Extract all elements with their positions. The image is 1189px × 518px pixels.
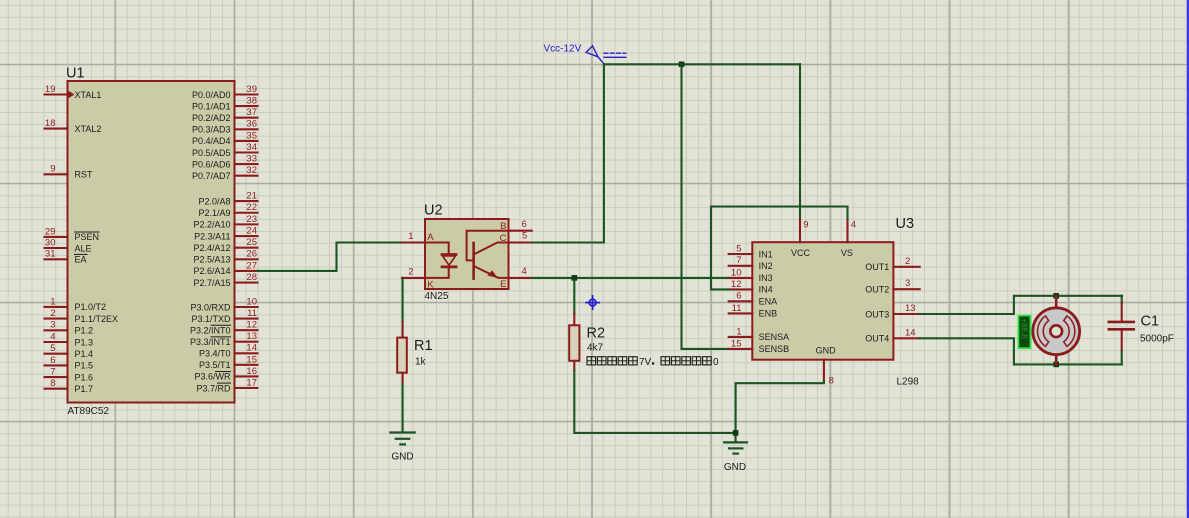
svg-text:13: 13 xyxy=(905,303,916,314)
svg-text:1k: 1k xyxy=(415,356,427,367)
wire U2 pin E to U3 IN3 xyxy=(532,277,729,279)
U2 pin 6 (B) xyxy=(500,219,532,232)
U1 pin 24 (P2.3/A11) xyxy=(194,225,257,241)
svg-text:14: 14 xyxy=(905,327,916,338)
svg-text:U3: U3 xyxy=(896,216,915,232)
svg-text:P2.1/A9: P2.1/A9 xyxy=(198,208,230,218)
U2 pin 1 (A) xyxy=(402,231,434,243)
U1 pin 8 (P1.7) xyxy=(45,378,94,394)
svg-text:P1.6: P1.6 xyxy=(75,372,94,382)
svg-text:23: 23 xyxy=(246,214,257,225)
U1 value AT89C52 xyxy=(68,406,110,417)
U1 pin 15 (P3.5/T1) xyxy=(199,354,258,370)
wire U1 P2.6 (pin 27) to U2 pin A xyxy=(258,243,403,271)
U2 internal LED xyxy=(425,243,456,278)
svg-text:P0.5/AD5: P0.5/AD5 xyxy=(192,148,231,158)
svg-text:AT89C52: AT89C52 xyxy=(68,406,110,417)
svg-text:6: 6 xyxy=(736,291,741,302)
U1 pin 12 (P3.2/INT0) xyxy=(190,320,258,336)
U1 pin 30 (ALE) xyxy=(45,237,92,253)
U2 pin 4 (E) xyxy=(500,266,532,290)
U1 pin 9 (RST) xyxy=(45,164,94,180)
junction motor bottom xyxy=(1053,362,1059,368)
svg-text:17: 17 xyxy=(246,377,257,388)
svg-text:6: 6 xyxy=(522,219,527,230)
svg-text:ENA: ENA xyxy=(759,297,778,307)
svg-text:OUT1: OUT1 xyxy=(865,262,889,272)
svg-text:P0.6/AD6: P0.6/AD6 xyxy=(192,159,231,169)
U1 pin 25 (P2.4/A12) xyxy=(193,237,257,253)
svg-text:10: 10 xyxy=(731,267,742,278)
svg-text:3: 3 xyxy=(50,320,55,331)
svg-text:5: 5 xyxy=(736,243,741,254)
U1 pin 17 (P3.7/RD) xyxy=(196,377,257,393)
svg-text:XTAL1: XTAL1 xyxy=(75,90,102,100)
svg-text:P1.5: P1.5 xyxy=(75,361,94,371)
svg-text:27: 27 xyxy=(246,260,257,271)
svg-text:8: 8 xyxy=(50,378,55,389)
svg-text:2: 2 xyxy=(408,267,413,278)
svg-text:18: 18 xyxy=(45,118,56,129)
U3 value L298 xyxy=(897,376,920,387)
U1 pin 5 (P1.4) xyxy=(45,343,94,359)
svg-text:P3.7/RD: P3.7/RD xyxy=(196,383,231,393)
svg-text:IN4: IN4 xyxy=(759,285,773,295)
junction at R2 top xyxy=(572,275,578,281)
U3 pin 2 (OUT1) xyxy=(865,256,919,272)
svg-text:15: 15 xyxy=(246,354,257,365)
microcontroller U1 AT89C52 xyxy=(68,81,235,403)
U1 pin 35 (P0.4/AD4) xyxy=(192,130,258,146)
U1 pin 16 (P3.6/WR) xyxy=(194,366,257,382)
svg-text:P3.4/T0: P3.4/T0 xyxy=(199,349,231,359)
U1 pin 2 (P1.1/T2EX) xyxy=(45,308,119,324)
svg-text:P2.4/A12: P2.4/A12 xyxy=(193,243,230,253)
junction Vcc rail at x=682 xyxy=(679,62,685,68)
svg-text:VCC: VCC xyxy=(791,248,811,258)
svg-text:1: 1 xyxy=(408,231,413,242)
U3 pin 1 (SENSA) xyxy=(729,326,789,342)
U1 pin 39 (P0.0/AD0) xyxy=(192,84,258,100)
svg-text:7: 7 xyxy=(50,367,55,378)
svg-text:U2: U2 xyxy=(424,203,443,219)
svg-text:16: 16 xyxy=(246,366,257,377)
C1 reference label xyxy=(1141,314,1160,330)
U3 pin 10 (IN3) xyxy=(729,267,773,283)
svg-text:12: 12 xyxy=(246,320,257,331)
wire Vcc junction down to U3 SENSB xyxy=(682,64,729,349)
svg-text:GND: GND xyxy=(724,462,746,473)
svg-text:L298: L298 xyxy=(897,376,920,387)
U1 pin 4 (P1.3) xyxy=(45,331,94,347)
svg-text:P1.2: P1.2 xyxy=(75,326,94,336)
svg-text:IN3: IN3 xyxy=(759,273,773,283)
svg-text:IN2: IN2 xyxy=(759,261,773,271)
wire U3 OUT3 to motor top xyxy=(920,296,1122,314)
svg-text:39: 39 xyxy=(246,84,257,95)
U3 pin 7 (IN2) xyxy=(729,255,773,271)
U3 pin 8 (GND) xyxy=(816,346,837,387)
svg-text:26: 26 xyxy=(246,249,257,260)
svg-text:4N25: 4N25 xyxy=(425,291,449,302)
U1 pin 3 (P1.2) xyxy=(45,320,94,336)
U1 pin 14 (P3.4/T0) xyxy=(199,343,258,359)
svg-text:2: 2 xyxy=(50,308,55,319)
U3 pin 3 (OUT2) xyxy=(865,278,919,294)
svg-text:P1.4: P1.4 xyxy=(75,349,94,359)
svg-text:XTAL2: XTAL2 xyxy=(75,124,102,134)
svg-text:R1: R1 xyxy=(414,338,433,354)
svg-text:ENB: ENB xyxy=(759,309,778,319)
svg-text:30: 30 xyxy=(45,237,56,248)
svg-text:14: 14 xyxy=(246,343,257,354)
U1 pin 34 (P0.5/AD5) xyxy=(192,142,258,158)
svg-text:22: 22 xyxy=(246,202,257,213)
U3 pin 6 (ENA) xyxy=(729,291,777,307)
power terminal Vcc-12V xyxy=(544,43,626,64)
svg-text:K: K xyxy=(427,279,434,290)
svg-text:21: 21 xyxy=(246,191,257,202)
resistor R2 xyxy=(569,314,579,371)
wire VS/IN4 net xyxy=(711,207,848,290)
svg-text:RST: RST xyxy=(75,170,94,180)
svg-text:EA: EA xyxy=(75,255,87,265)
svg-text:8: 8 xyxy=(829,375,834,386)
U1 pin 21 (P2.0/A8) xyxy=(198,191,257,207)
svg-text:33: 33 xyxy=(246,154,257,165)
svg-text:4: 4 xyxy=(50,331,55,342)
junction ground rail at R2 wire xyxy=(733,430,739,436)
U2 internal phototransistor xyxy=(467,231,509,279)
svg-text:11: 11 xyxy=(732,303,742,314)
svg-text:IN1: IN1 xyxy=(759,249,773,259)
svg-text:SENSB: SENSB xyxy=(759,344,790,354)
U1 pin 22 (P2.1/A9) xyxy=(198,202,257,218)
U1 pin 23 (P2.2/A10) xyxy=(193,214,257,230)
C1 value 5000pF xyxy=(1140,333,1174,344)
U1 pin 31 (EA) xyxy=(45,249,88,265)
svg-text:P1.0/T2: P1.0/T2 xyxy=(75,302,107,312)
U3 pin 12 (IN4) xyxy=(729,279,773,295)
U1 pin 11 (P3.1/TXD) xyxy=(191,308,257,324)
svg-text:P2.3/A11: P2.3/A11 xyxy=(194,231,230,241)
motor driver U3 L298 xyxy=(752,242,893,360)
U3 pin 13 (OUT3) xyxy=(865,303,919,319)
svg-text:OUT3: OUT3 xyxy=(865,309,889,319)
U1 pin 29 (PSEN) xyxy=(45,226,100,242)
svg-text:12: 12 xyxy=(731,279,742,290)
wire U2 pin K down to R1 xyxy=(402,278,404,322)
svg-text:R2: R2 xyxy=(587,326,606,342)
U1 reference label xyxy=(66,66,85,82)
R1 value 1k xyxy=(415,356,427,367)
R2 reference label xyxy=(587,326,606,342)
U2 reference label xyxy=(424,203,443,219)
svg-text:1: 1 xyxy=(736,326,741,337)
wire R2 bottom to ground rail xyxy=(574,371,735,433)
svg-text:GND: GND xyxy=(816,346,837,356)
U1 pin 7 (P1.6) xyxy=(45,367,94,383)
U2 pin 2 (K) xyxy=(402,267,434,291)
origin marker (blue crosshair) xyxy=(586,296,599,309)
svg-text:U1: U1 xyxy=(66,66,85,82)
svg-text:1: 1 xyxy=(50,296,55,307)
svg-text:P3.1/TXD: P3.1/TXD xyxy=(191,314,231,324)
U3 pin 11 (ENB) xyxy=(729,303,777,319)
svg-text:P3.0/RXD: P3.0/RXD xyxy=(190,302,231,312)
resistor R1 xyxy=(397,322,407,384)
svg-text:Vcc-12V: Vcc-12V xyxy=(544,43,582,54)
wire R1 to ground xyxy=(402,384,404,431)
svg-text:P2.7/A15: P2.7/A15 xyxy=(193,278,230,288)
svg-text:GND: GND xyxy=(391,452,413,463)
svg-text:+88.8: +88.8 xyxy=(1020,318,1029,339)
svg-text:6: 6 xyxy=(50,355,55,366)
U1 pin 6 (P1.5) xyxy=(45,355,94,371)
svg-text:P3.3/INT1: P3.3/INT1 xyxy=(190,337,231,347)
optocoupler U2 4N25 xyxy=(425,219,509,289)
U3 pin 4 (VS) xyxy=(841,219,856,258)
ground symbol below R1 xyxy=(390,433,414,463)
svg-text:5: 5 xyxy=(522,231,527,242)
wire U3 GND pin to ground rail xyxy=(736,381,824,441)
svg-text:P3.5/T1: P3.5/T1 xyxy=(199,360,231,370)
U1 pin 37 (P0.2/AD2) xyxy=(192,107,258,123)
svg-text:SENSA: SENSA xyxy=(759,332,790,342)
svg-text:4: 4 xyxy=(851,219,856,230)
svg-text:13: 13 xyxy=(246,331,257,342)
R1 reference label xyxy=(414,338,433,354)
svg-text:36: 36 xyxy=(246,119,257,130)
svg-text:19: 19 xyxy=(45,84,56,95)
svg-text:E: E xyxy=(500,279,506,290)
U1 pin 38 (P0.1/AD1) xyxy=(192,96,258,112)
svg-text:P0.7/AD7: P0.7/AD7 xyxy=(192,171,231,181)
U1 pin 19 (XTAL1) xyxy=(45,84,102,100)
svg-text:P2.5/A13: P2.5/A13 xyxy=(193,255,230,265)
U1 pin 27 (P2.6/A14) xyxy=(193,260,257,276)
svg-text:5000pF: 5000pF xyxy=(1140,333,1174,344)
wire junction down to R2 xyxy=(573,280,575,314)
motor xyxy=(1033,296,1080,365)
svg-text:29: 29 xyxy=(45,226,56,237)
svg-text:P0.2/AD2: P0.2/AD2 xyxy=(192,113,231,123)
svg-text:P3.6/WR: P3.6/WR xyxy=(194,372,231,382)
svg-text:P0.3/AD3: P0.3/AD3 xyxy=(192,125,231,135)
svg-text:P0.0/AD0: P0.0/AD0 xyxy=(192,90,231,100)
junction motor top xyxy=(1053,293,1059,299)
U1 pin 26 (P2.5/A13) xyxy=(193,249,257,265)
U3 reference label xyxy=(896,216,915,232)
U3 pin 14 (OUT4) xyxy=(865,327,919,343)
svg-text:OUT2: OUT2 xyxy=(865,285,889,295)
svg-text:37: 37 xyxy=(246,107,257,118)
svg-text:3: 3 xyxy=(905,278,910,289)
svg-text:P1.3: P1.3 xyxy=(75,337,94,347)
wire U3 OUT4 to motor bottom xyxy=(920,338,1122,364)
svg-text:P2.0/A8: P2.0/A8 xyxy=(198,196,230,206)
svg-text:32: 32 xyxy=(246,165,257,176)
motor rpm display xyxy=(1018,316,1030,349)
svg-text:11: 11 xyxy=(247,308,257,319)
R2 value 4k7 xyxy=(587,343,604,354)
svg-text:25: 25 xyxy=(246,237,257,248)
wire U2 pin C to Vcc rail xyxy=(532,64,604,242)
U1 pin 36 (P0.3/AD3) xyxy=(192,119,258,135)
svg-text:P3.2/INT0: P3.2/INT0 xyxy=(190,325,231,335)
U3 pin 15 (SENSB) xyxy=(729,338,789,354)
U1 pin 33 (P0.6/AD6) xyxy=(192,154,258,170)
svg-text:7: 7 xyxy=(736,255,741,266)
svg-text:5: 5 xyxy=(50,343,55,354)
svg-text:P0.1/AD1: P0.1/AD1 xyxy=(192,101,231,111)
svg-text:9: 9 xyxy=(50,164,55,175)
svg-text:0: 0 xyxy=(713,357,719,368)
svg-text:P2.6/A14: P2.6/A14 xyxy=(193,266,230,276)
U2 pin 5 (C) xyxy=(500,231,532,244)
svg-text:P1.1/T2EX: P1.1/T2EX xyxy=(75,314,119,324)
R2 note (chinese) xyxy=(587,357,719,368)
ground symbol below U3 xyxy=(724,442,747,473)
svg-text:35: 35 xyxy=(246,130,257,141)
svg-text:7V: 7V xyxy=(639,357,652,368)
U1 pin 13 (P3.3/INT1) xyxy=(190,331,258,347)
svg-text:10: 10 xyxy=(246,296,257,307)
U2 value 4N25 xyxy=(425,291,449,302)
svg-text:P0.4/AD4: P0.4/AD4 xyxy=(192,136,231,146)
svg-text:31: 31 xyxy=(45,249,56,260)
svg-text:34: 34 xyxy=(246,142,257,153)
svg-text:P2.2/A10: P2.2/A10 xyxy=(193,220,230,230)
svg-text:C1: C1 xyxy=(1141,314,1160,330)
svg-text:ALE: ALE xyxy=(75,243,92,253)
svg-text:OUT4: OUT4 xyxy=(865,334,889,344)
svg-text:2: 2 xyxy=(905,256,910,267)
U1 pin 32 (P0.7/AD7) xyxy=(192,165,258,181)
wire Vcc rail down to U3 VCC pin 9 xyxy=(799,64,801,219)
wire Vcc rail top horizontal xyxy=(604,63,800,65)
svg-text:15: 15 xyxy=(731,338,742,349)
svg-text:9: 9 xyxy=(803,219,808,230)
svg-text:4: 4 xyxy=(522,266,527,277)
svg-text:PSEN: PSEN xyxy=(75,232,100,242)
svg-text:P1.7: P1.7 xyxy=(75,384,94,394)
U1 pin 18 (XTAL2) xyxy=(45,118,102,134)
capacitor C1 xyxy=(1109,296,1134,365)
U3 pin 9 (VCC) xyxy=(791,219,811,258)
U3 pin 5 (IN1) xyxy=(729,243,773,259)
U1 pin 10 (P3.0/RXD) xyxy=(190,296,257,312)
svg-text:4k7: 4k7 xyxy=(587,343,604,354)
svg-text:28: 28 xyxy=(246,272,257,283)
svg-text:38: 38 xyxy=(246,96,257,107)
U1 pin 28 (P2.7/A15) xyxy=(193,272,257,288)
svg-text:VS: VS xyxy=(841,248,853,258)
U1 pin 1 (P1.0/T2) xyxy=(45,296,107,312)
svg-text:24: 24 xyxy=(246,225,257,236)
